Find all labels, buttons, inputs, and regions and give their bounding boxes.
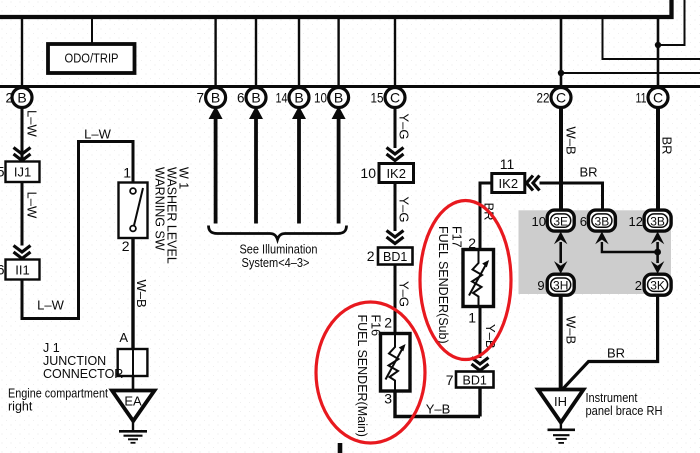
svg-text:22: 22 <box>537 91 550 106</box>
shield block gray <box>519 210 672 294</box>
svg-text:BR: BR <box>660 137 675 155</box>
connector 15 C <box>371 88 406 108</box>
svg-text:Engine compartment: Engine compartment <box>8 387 108 401</box>
node junction 3B wires <box>654 249 661 256</box>
svg-text:L–W: L–W <box>25 110 40 137</box>
svg-text:W–B: W–B <box>564 316 579 344</box>
svg-text:2: 2 <box>5 91 13 106</box>
connector 2 3K <box>635 274 671 295</box>
wire 6B drop <box>255 17 257 88</box>
connector 6 3B <box>580 210 616 231</box>
svg-text:10: 10 <box>360 165 376 181</box>
wire illumination 10B arrow <box>332 106 346 224</box>
arrow down into 3H <box>554 261 567 274</box>
arrow up into 3B-12 <box>651 232 664 245</box>
wire illumination 14B arrow <box>292 106 306 224</box>
wire switch to junction connector (W-B) <box>131 238 134 349</box>
wire BD1 to F16 (Y-G) <box>394 265 397 334</box>
arrow down into 3K <box>651 261 664 274</box>
wire branch up from 11C node <box>658 0 685 45</box>
svg-text:2: 2 <box>122 238 130 254</box>
odometer ODO/TRIP <box>48 44 135 73</box>
svg-text:IK2: IK2 <box>499 176 519 191</box>
svg-text:7: 7 <box>196 91 204 106</box>
svg-text:BD1: BD1 <box>463 374 487 388</box>
svg-text:9: 9 <box>537 278 544 293</box>
svg-text:L–W: L–W <box>37 298 64 313</box>
svg-text:BR: BR <box>607 346 625 361</box>
wire ODO/TRIP feed <box>91 17 93 45</box>
connector 10 3E <box>532 210 575 231</box>
svg-text:panel brace RH: panel brace RH <box>586 404 663 418</box>
connector 9 3H <box>537 274 574 295</box>
svg-text:3: 3 <box>384 391 392 407</box>
connector 2 B <box>5 88 32 108</box>
wire arrow chevrons into IK2 <box>387 148 404 161</box>
wire 2B drop from top bus <box>21 17 23 88</box>
svg-text:6: 6 <box>580 214 587 229</box>
svg-text:15: 15 <box>371 91 384 106</box>
wire arrow chevrons into BD1-7 <box>472 358 489 371</box>
svg-text:II1: II1 <box>15 263 29 278</box>
ground point EA triangle <box>112 391 155 422</box>
wire 10B drop <box>337 17 339 88</box>
svg-text:7: 7 <box>446 372 454 388</box>
svg-text:6: 6 <box>237 91 245 106</box>
wire top-right elbow to edge <box>603 17 700 59</box>
brace see illumination <box>209 226 347 240</box>
ground symbol EA <box>119 421 147 443</box>
connector 7 B <box>196 88 225 108</box>
wire IK2 to BD1 (Y-G) <box>394 183 397 232</box>
wire arrow chevrons into IK2-11 (left pointing) <box>527 176 540 191</box>
svg-text:2: 2 <box>635 278 642 293</box>
wire arrow chevrons into IJ1 <box>14 148 31 161</box>
wire 3B-12 to 3K <box>656 242 659 263</box>
wire 3B-6 to junction <box>602 242 658 252</box>
svg-text:IK2: IK2 <box>386 166 406 181</box>
svg-text:C: C <box>556 90 566 106</box>
connector 6 B <box>237 88 266 108</box>
svg-text:BR: BR <box>579 165 597 180</box>
wire F16 to BD1-7 (Y-B) <box>395 391 480 417</box>
svg-text:W–B: W–B <box>564 127 579 155</box>
svg-text:B: B <box>17 90 26 106</box>
svg-text:C: C <box>390 90 400 106</box>
svg-text:EA: EA <box>124 394 142 409</box>
junction block IK2 pin 11 <box>492 156 525 193</box>
wire J1 to EA ground <box>132 376 135 391</box>
svg-text:IJ1: IJ1 <box>14 165 31 180</box>
arrow up into 3E <box>554 232 567 245</box>
wire 15C drop <box>394 17 396 88</box>
wire 11C drop <box>657 17 660 88</box>
svg-text:Y–G: Y–G <box>397 114 412 140</box>
svg-text:14: 14 <box>276 91 288 106</box>
svg-text:B: B <box>334 90 343 106</box>
svg-text:3B: 3B <box>650 214 665 228</box>
svg-text:right: right <box>8 400 33 414</box>
svg-text:1: 1 <box>468 310 476 326</box>
svg-text:1: 1 <box>123 165 131 181</box>
svg-text:ODO/TRIP: ODO/TRIP <box>65 52 119 66</box>
wire 11C down to 3B-12 (BR) <box>656 107 660 210</box>
connector 12 3B <box>629 210 672 231</box>
wire F17 to BD1-7 (Y-B) <box>479 307 482 359</box>
svg-text:C: C <box>653 90 663 106</box>
wire combination meter edge bus <box>0 85 700 88</box>
wire 3K to IH ground (BR) <box>562 295 658 390</box>
svg-text:A: A <box>119 330 128 345</box>
svg-text:J 1: J 1 <box>43 341 60 355</box>
junction block II1 pin 6 <box>0 260 40 280</box>
svg-text:System<4–3>: System<4–3> <box>242 255 310 270</box>
wire IK2-11 to F17 (BR) <box>480 183 492 250</box>
svg-text:Y–B: Y–B <box>426 402 451 417</box>
wire illumination 7B arrow <box>209 106 223 224</box>
ground point IH triangle <box>538 390 584 423</box>
svg-text:3K: 3K <box>650 278 665 292</box>
junction block IJ1 pin 5 <box>0 162 40 183</box>
ground symbol IH <box>548 423 576 443</box>
wire 15C to IK2 (Y-G) <box>394 107 397 148</box>
wire illumination 6B arrow <box>249 106 263 224</box>
annotation red ellipse F17 <box>420 201 511 360</box>
connector 10 B <box>314 88 349 108</box>
wire stub bottom edge <box>338 443 343 453</box>
switch W1 washer level warning sw <box>119 183 148 239</box>
wire 22C drop <box>560 17 563 88</box>
junction block BD1 pin 7 <box>446 372 494 389</box>
wire 2B to IJ1 (L-W) <box>21 107 24 161</box>
wire arrow chevrons into BD1 <box>387 231 404 244</box>
fuel sender F17 (Sub) <box>463 250 494 307</box>
wire 3E to 3H <box>559 242 562 263</box>
annotation red ellipse F16 <box>316 302 425 443</box>
fuel sender F16 (Main) <box>381 334 411 392</box>
svg-text:5: 5 <box>0 164 5 180</box>
svg-text:Y–G: Y–G <box>397 197 412 223</box>
connector 22 C <box>537 88 572 108</box>
svg-text:B: B <box>294 90 303 106</box>
arrow up into 3B-6 <box>595 232 608 245</box>
svg-text:10: 10 <box>314 91 327 106</box>
connector 11 C <box>636 88 669 108</box>
junction block IK2 pin 10 <box>360 164 413 183</box>
connector 14 B <box>276 88 310 108</box>
svg-text:L–W: L–W <box>25 192 40 219</box>
wire main power bus (top thick) <box>0 0 672 17</box>
svg-text:3E: 3E <box>553 214 568 228</box>
svg-text:L–W: L–W <box>84 127 111 142</box>
wire 3H to IH ground (W-B) <box>559 295 563 390</box>
wire 22C down to 3E (W-B) <box>559 107 563 210</box>
node junction on 11C wire <box>655 42 661 48</box>
svg-text:BD1: BD1 <box>383 250 407 264</box>
svg-text:2: 2 <box>384 315 392 331</box>
svg-text:11: 11 <box>636 91 647 106</box>
wire IJ1 to II1 (L-W) <box>21 182 24 246</box>
svg-text:W–B: W–B <box>134 280 149 308</box>
wire branch right from 22C node <box>561 72 700 74</box>
junction block BD1 pin 2 <box>367 248 413 265</box>
wire 14B drop <box>298 17 300 88</box>
wire BR from 3B-6 to IK2-11 <box>540 183 603 211</box>
wire 7B drop <box>214 17 216 88</box>
svg-text:JUNCTION: JUNCTION <box>43 354 106 368</box>
node junction on 22C wire <box>558 70 564 76</box>
wire BD1-7 down to Y-B run <box>478 388 481 417</box>
svg-text:10: 10 <box>532 214 546 229</box>
svg-text:Instrument: Instrument <box>586 391 638 405</box>
svg-text:6: 6 <box>0 262 5 278</box>
svg-text:B: B <box>211 90 220 106</box>
junction connector J1 <box>118 349 148 376</box>
svg-text:11: 11 <box>500 156 515 172</box>
wire II1 to washer switch pin1 (L-W loop) <box>22 142 133 319</box>
wire arrow chevrons into II1 <box>14 246 31 259</box>
svg-text:Y–G: Y–G <box>397 281 412 307</box>
svg-text:B: B <box>251 90 260 106</box>
svg-text:3B: 3B <box>595 214 610 228</box>
svg-text:2: 2 <box>367 248 375 264</box>
svg-text:12: 12 <box>629 214 643 229</box>
svg-text:CONNECTOR: CONNECTOR <box>43 367 123 381</box>
svg-text:IH: IH <box>554 394 567 409</box>
svg-text:3H: 3H <box>553 278 568 292</box>
